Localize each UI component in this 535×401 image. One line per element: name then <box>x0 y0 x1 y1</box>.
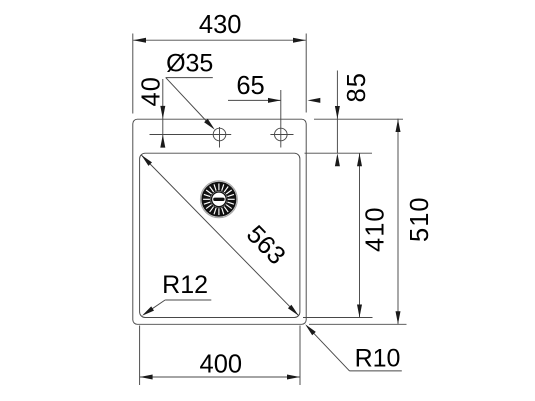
svg-text:430: 430 <box>199 11 242 39</box>
svg-text:410: 410 <box>361 206 389 252</box>
svg-text:65: 65 <box>236 72 264 100</box>
svg-text:400: 400 <box>200 351 243 379</box>
svg-text:510: 510 <box>406 196 434 242</box>
svg-text:R10: R10 <box>355 345 401 373</box>
svg-text:85: 85 <box>343 72 371 102</box>
svg-text:Ø35: Ø35 <box>166 50 213 78</box>
svg-text:40: 40 <box>138 76 166 106</box>
svg-text:R12: R12 <box>162 271 208 299</box>
